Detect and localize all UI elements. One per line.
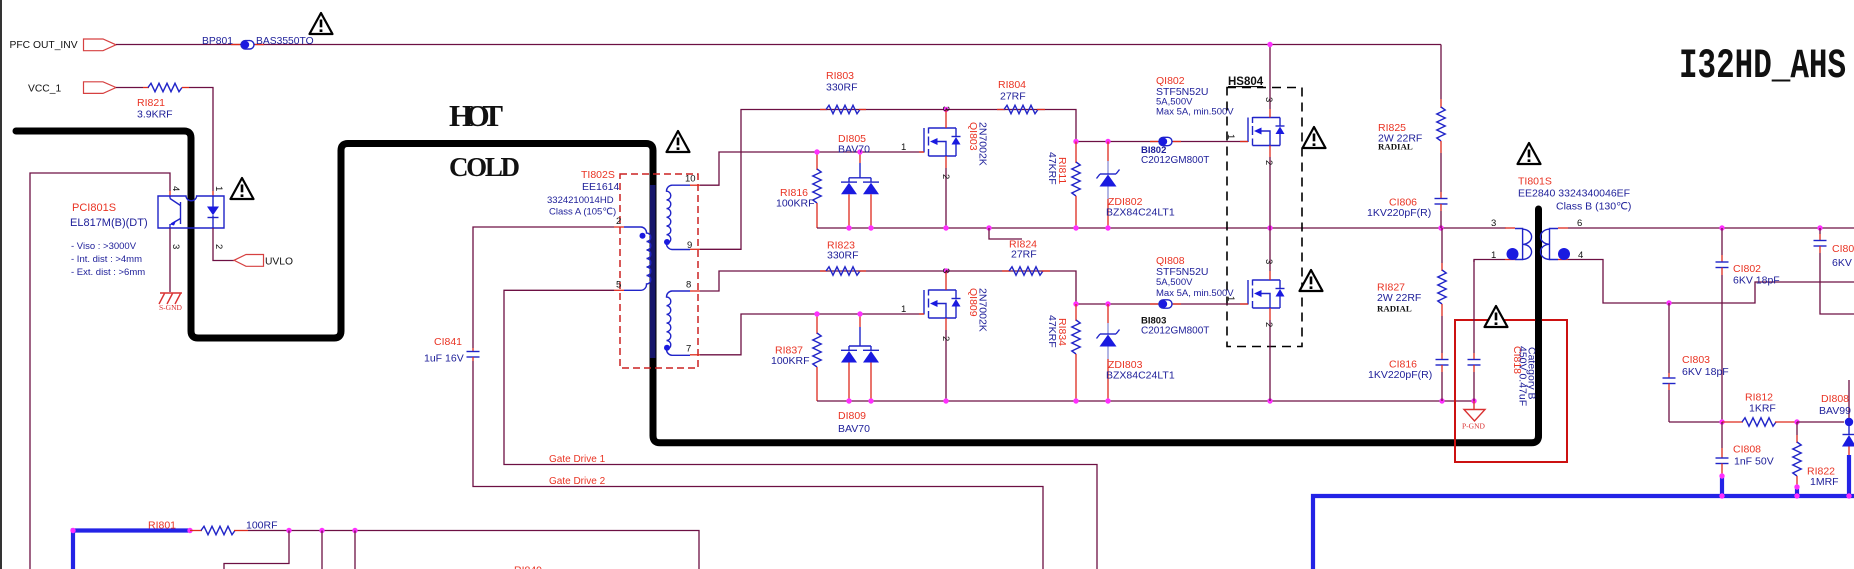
value 1uF 16V [424,353,464,365]
node bottom row a [286,528,291,533]
T1801S core bar [1535,207,1542,440]
svg-text:UVLO: UVLO [265,257,293,268]
pin 1 label Q1809 [901,304,906,315]
value C2012GM800T [1141,155,1209,166]
svg-text:1: 1 [213,186,224,191]
pin 8 label T1802S [686,280,691,291]
pin 4 label T1801S [1578,250,1583,261]
wire pin10 to gate row 1 [700,152,924,185]
value 3324210014HD [547,195,614,206]
value Class A (105C) [549,207,616,218]
svg-text:CI80: CI80 [1832,243,1854,255]
node blue rail C1808 [1719,493,1724,498]
node blue rail D1808 [1846,493,1851,498]
svg-text:DI808: DI808 [1821,393,1849,405]
node gate row B junction R1834 [1073,301,1078,306]
svg-text:1KV220pF(R): 1KV220pF(R) [1367,207,1431,219]
T1802S primary polarity dot [640,233,646,239]
wire top rail down to R1825 [1440,45,1442,100]
label C1806 [1389,197,1417,209]
node rail1 Q1802 source [1267,225,1272,230]
svg-text:6KV: 6KV [1832,257,1852,269]
value RADIAL [1377,304,1412,314]
node R1812 row right junction [1794,419,1799,424]
node R1822 bottom [1794,484,1799,489]
label C1804 [1832,243,1854,255]
pin 1 label Q1803 [901,142,906,153]
label ZD1802 [1108,196,1143,208]
pin 2 label Q1808 [1263,322,1274,327]
svg-text:BZX84C24LT1: BZX84C24LT1 [1106,370,1175,382]
pin 7 label T1802S [686,344,691,355]
warning triangle above T1802S [667,131,690,152]
label R1816 [780,187,808,199]
svg-text:47KRF: 47KRF [1046,315,1058,348]
value EL817M(B)(DT) [70,217,148,229]
wire R1821 to opto pin1 [189,88,213,192]
HOT/COLD isolation boundary thick black line [16,131,1539,443]
label Gate Drive 1 [549,454,606,465]
svg-text:C2012GM800T: C2012GM800T [1141,326,1209,337]
node rail2 ZD1803 bottom [1105,398,1110,403]
svg-text:RI801: RI801 [148,520,176,532]
wire VCC_1 to R1821 [116,87,143,89]
value 2N7002K rotated [977,288,989,332]
svg-text:3324210014HD: 3324210014HD [547,195,614,206]
label PCI801S [72,202,116,214]
svg-text:Gate Drive 1: Gate Drive 1 [549,454,606,465]
node rail2 D1809 anode a [846,398,851,403]
node rail2 R1834 bottom [1073,398,1078,403]
svg-text:VCC_1: VCC_1 [28,84,61,95]
note Ext dist [71,267,145,278]
label R1824 [1009,239,1037,251]
value Max 5A, min.500V [1156,288,1234,299]
label R1804 [998,79,1026,91]
svg-text:330RF: 330RF [827,250,859,262]
label D1808 [1821,393,1849,405]
pin 3 label Q1808 [1263,259,1274,264]
wire drain row 2 to R1824 to gate row B [946,271,1248,304]
svg-text:2: 2 [213,244,224,249]
svg-text:I32HD_AHS: I32HD_AHS [1679,42,1846,90]
node bottom row b [319,528,324,533]
node R1837 top junction [814,311,819,316]
wire secondary rail pin6 [1568,227,1854,229]
label R1822 [1807,466,1835,478]
node rail2 C1816 bottom [1439,398,1444,403]
node gate row A junction ZD1802 [1105,139,1110,144]
pin 2 label Q1803 [940,174,951,179]
svg-text:1: 1 [901,304,906,315]
svg-text:100KRF: 100KRF [771,355,810,367]
svg-text:2N7002K: 2N7002K [977,288,989,332]
resistor R1824 [1002,267,1050,275]
transistor Q1803 [919,110,961,229]
connector VCC_1 [28,82,116,95]
zener ZD1803 [1097,304,1120,401]
svg-text:3: 3 [1263,97,1274,102]
value 450V 0.47uF rotated [1517,346,1529,406]
label R1801 [148,520,176,532]
svg-text:S-GND: S-GND [159,303,183,312]
pin 1 label opto [213,186,224,191]
pin 6 label T1801S [1577,218,1582,229]
label T1802S [581,169,615,181]
pin 10 label T1802S [685,174,696,185]
value C2012GM800T [1141,326,1209,337]
pin 1 label Q1808 [1225,296,1236,301]
capacitor C1808 [1716,422,1729,476]
svg-text:HS804: HS804 [1228,76,1264,88]
svg-text:3: 3 [1491,218,1496,229]
warning triangle right of Q1802 [1303,127,1326,148]
svg-text:2: 2 [1263,322,1274,327]
svg-text:BAS3550TO: BAS3550TO [256,36,314,47]
wire T1801S pin1 to C1818 [1474,260,1505,263]
resistor R1821 [143,83,189,91]
label Q1802 [1156,75,1185,87]
T1801S primary winding pins 3-1 [1505,228,1532,260]
pin 4 label opto [170,186,181,191]
svg-text:1nF 50V: 1nF 50V [1734,456,1774,468]
pin 1 label Q1802 [1225,134,1236,139]
ground P-GND [1462,401,1486,431]
wire opto pin3 to S-GND [169,228,171,292]
wire R1822 stub to blue rail [1795,486,1799,496]
svg-text:COLD: COLD [449,152,520,182]
wire blue ground rail [1313,496,1854,569]
svg-text:2W 22RF: 2W 22RF [1377,292,1421,304]
value BAV99 [1819,405,1851,417]
pin 3 label Q1809 [940,268,951,273]
value EE2840 3324340046EF [1518,188,1630,200]
node pin4 net C1803 junction [1666,300,1671,305]
svg-text:TI801S: TI801S [1518,176,1552,188]
node R1816 top junction [814,149,819,154]
title I32HD_AHS [1679,42,1846,90]
value STF5N52U [1156,266,1209,278]
value BAV70 [838,144,870,156]
svg-text:TI802S: TI802S [581,169,615,181]
value BAV70 [838,423,870,435]
capacitor C1806 [1435,192,1448,228]
node bottom row c [352,528,357,533]
pin 2 label opto [213,244,224,249]
svg-text:RI803: RI803 [826,70,854,82]
resistor R1801 [190,526,248,534]
svg-text:CI803: CI803 [1682,354,1710,366]
svg-text:RADIAL: RADIAL [1377,304,1412,314]
value BZX84C24LT1 [1106,207,1175,219]
value 100KRF [771,355,810,367]
transformer T1801S label [1518,176,1552,188]
value Class B (130C) [1556,201,1631,213]
value 2N7002K rotated [977,122,989,166]
svg-text:2: 2 [616,216,621,227]
svg-text:1MRF: 1MRF [1810,476,1839,488]
svg-text:1: 1 [901,142,906,153]
node blue corner [70,528,75,533]
node R1801 left [187,528,192,533]
value 6KV 18pF [1682,366,1729,378]
wire source rail 2 [817,400,1474,402]
value BZX84C24LT1 [1106,370,1175,382]
svg-text:Gate Drive 2: Gate Drive 2 [549,476,606,487]
value EE1614 [582,181,620,193]
value 3.9KRF [137,109,173,121]
node C1808 bottom [1719,473,1724,478]
capacitor C1841 [467,348,480,361]
value 1nF 50V [1734,456,1774,468]
label Q1803 rotated [967,122,979,151]
wire pin2 to C1841 column [473,227,614,348]
svg-text:Class B (130℃): Class B (130℃) [1556,201,1631,213]
node rail1 ZD1802 bottom [1105,225,1110,230]
ground S-GND [159,293,183,312]
label C1818 rotated [1511,346,1523,374]
value RADIAL [1378,142,1413,152]
svg-text:BAV70: BAV70 [838,423,870,435]
label Q1808 [1156,255,1185,267]
label D1805 [838,133,866,145]
node rail1 R1811 bottom [1073,225,1078,230]
T1801S secondary polarity dot [1558,248,1570,260]
node rail1 stub junction [986,225,991,230]
svg-text:BAV99: BAV99 [1819,405,1851,417]
wire R1812 to D1808 [1797,421,1844,423]
svg-text:2: 2 [1263,160,1274,165]
node rail1 C1806 column [1438,225,1443,230]
wire pin7 to gate row 2 [700,314,924,355]
label C1816 [1389,359,1417,371]
diode D1808 BAV99 [1842,380,1854,496]
node R1812 row left junction [1719,419,1724,424]
value Max 5A, min.500V [1156,107,1234,118]
value 330RF [827,250,859,262]
svg-text:27RF: 27RF [1011,249,1037,261]
wire opto pin2 to UVLO [213,228,234,261]
pin 3 label Q1803 [940,106,951,111]
wire stub below rail1 [989,228,1022,239]
value 27RF [1011,249,1037,261]
svg-text:4: 4 [170,186,181,191]
svg-text:- Viso : >3000V: - Viso : >3000V [71,241,137,252]
label C1803 [1682,354,1710,366]
capacitor C1802 [1716,228,1729,422]
wire net PFC_OUT_INV top rail [116,44,1441,46]
resistor R1823 [820,267,866,275]
label R1834 rotated [1056,318,1068,346]
svg-text:10: 10 [685,174,696,185]
pin 3 label T1801S [1491,218,1496,229]
svg-text:3: 3 [170,244,181,249]
value 2W 22RF [1378,133,1422,145]
value 47KRF rotated [1046,315,1058,348]
warning triangle near optocoupler [231,178,254,199]
svg-text:8: 8 [686,280,691,291]
svg-text:HOT: HOT [449,98,503,133]
label HS804 [1228,76,1264,88]
wire C1803 bottom to R1812 row [1669,421,1722,423]
pin 9 label T1802S [687,240,692,251]
wire branch c [354,531,356,569]
wire branch b [321,531,323,569]
label R1837 [775,345,803,357]
page border left edge [0,0,2,569]
value 1KV220pF(R) [1368,369,1432,381]
T1801S primary polarity dot [1507,248,1519,260]
connector PFC OUT_INV [10,39,117,51]
svg-text:1KRF: 1KRF [1749,403,1776,415]
node D1805 cathode junction [857,149,862,154]
pin 2 label Q1809 [940,336,951,341]
node top rail Q1802 drain [1267,42,1272,47]
svg-text:EL817M(B)(DT): EL817M(B)(DT) [70,217,148,229]
label R1803 [826,70,854,82]
node blue rail R1822 [1794,493,1799,498]
node rail1 D1805 anode a [846,225,851,230]
ferrite bead BP801 [231,41,264,49]
label BI803 [1141,316,1166,327]
label R1849 cut at bottom [514,565,542,569]
capacitor C1816 [1436,316,1449,401]
svg-text:3: 3 [1263,259,1274,264]
value 47KRF rotated [1046,152,1058,185]
svg-text:BAV70: BAV70 [838,144,870,156]
svg-text:100KRF: 100KRF [776,198,815,210]
value 5A,500V [1156,277,1193,288]
diode D1805 BAV70 [841,152,879,228]
node rail2 Q1808 source [1267,398,1272,403]
svg-text:1KV220pF(R): 1KV220pF(R) [1368,369,1432,381]
warning triangle near BP801 [310,13,333,34]
label C1802 [1733,263,1761,275]
node D1809 cathode junction [857,311,862,316]
capacitor C1804 [1814,228,1854,314]
resistor R1822 [1793,422,1801,487]
value 100KRF [776,198,815,210]
svg-text:2: 2 [940,336,951,341]
svg-text:EE1614: EE1614 [582,181,620,193]
label D1809 [838,410,866,422]
svg-text:Max 5A, min.500V: Max 5A, min.500V [1156,107,1234,118]
value 1KV220pF(R) [1367,207,1431,219]
capacitor C1818 [1468,260,1481,401]
value 5A,500V [1156,97,1193,108]
svg-text:47KRF: 47KRF [1046,152,1058,185]
label Q1809 rotated [967,288,979,317]
svg-text:6KV 18pF: 6KV 18pF [1733,275,1780,287]
op-amp PCI801S optocoupler [158,191,224,228]
value 100RF [246,520,278,532]
svg-text:- Int. dist : >4mm: - Int. dist : >4mm [71,254,142,265]
label R1821 [137,97,165,109]
ferrite bead BI803 [1150,300,1181,308]
connector UVLO [234,255,293,268]
svg-text:Class A (105℃): Class A (105℃) [549,207,616,218]
note Viso [71,241,137,252]
HOT label [449,98,503,133]
warning triangle above C1818 [1485,306,1508,327]
label C1841 [434,336,462,348]
svg-text:P-GND: P-GND [1462,422,1486,431]
svg-text:2N7002K: 2N7002K [977,122,989,166]
T1802S secondary winding pins 8-7 [666,291,700,355]
value 1KRF [1749,403,1776,415]
label BI802 [1141,145,1166,156]
resistor R1803 [820,105,866,113]
pin 2 label T1802S [616,216,621,227]
svg-text:3: 3 [940,106,951,111]
svg-text:5A,500V: 5A,500V [1156,277,1193,288]
wire pin8 up to drain row 2 [700,271,946,291]
svg-text:BZX84C24LT1: BZX84C24LT1 [1106,207,1175,219]
pin 3 label Q1802 [1263,97,1274,102]
value 6KV [1832,257,1852,269]
warning triangle above T1801S [1518,143,1541,164]
svg-text:BP801: BP801 [202,36,233,47]
T1802S secondary dot pin7 [664,345,670,351]
zener ZD1802 [1097,142,1120,229]
transistor Q1809 [919,271,961,401]
svg-text:1uF 16V: 1uF 16V [424,353,464,365]
svg-text:3: 3 [940,268,951,273]
svg-text:CI841: CI841 [434,336,462,348]
wire branch a jog [224,531,289,569]
value 27RF [1000,91,1026,103]
COLD label [449,152,520,182]
svg-text:PCI801S: PCI801S [72,202,116,214]
svg-text:- Ext. dist : >6mm: - Ext. dist : >6mm [71,267,145,278]
label R1825 [1378,122,1406,134]
diode D1809 BAV70 [841,314,879,401]
transformer T1802S dashed outline [620,174,698,368]
svg-text:PFC OUT_INV: PFC OUT_INV [10,40,78,51]
red enclosure box around C1818 [1455,320,1567,462]
label R1811 rotated [1056,157,1068,184]
pin 3 label opto [170,244,181,249]
svg-text:2: 2 [940,174,951,179]
label BP801 [202,36,233,47]
pin 2 label Q1802 [1263,160,1274,165]
node gate row A junction R1811 [1073,139,1078,144]
wire bottom distribution row [248,531,699,569]
node right rail C1802 junction [1719,225,1724,230]
T1802S secondary dot pin9 [664,239,670,245]
svg-text:RI804: RI804 [998,79,1026,91]
wire pin5 to Gate Drive 1 net [504,290,1097,569]
label R1812 [1745,392,1773,404]
label C1808 [1733,444,1761,456]
value 6KV 18pF [1733,275,1780,287]
svg-text:6KV 18pF: 6KV 18pF [1682,366,1729,378]
wire C1808 stub to blue rail [1720,475,1724,496]
svg-text:RI821: RI821 [137,97,165,109]
node gate row B junction ZD1803 [1105,301,1110,306]
svg-text:EE2840 3324340046EF: EE2840 3324340046EF [1518,188,1630,200]
resistor R1804 [997,105,1045,113]
pin 5 label T1802S [616,280,621,291]
wire drain row to R1804 [946,110,1248,142]
svg-text:27RF: 27RF [1000,91,1026,103]
svg-text:RI849: RI849 [514,565,542,569]
transistor Q1802 [1240,45,1285,229]
value 2W 22RF [1377,292,1421,304]
ferrite bead BI802 [1150,137,1181,145]
T1801S secondary winding pins 6-4 [1541,228,1569,260]
resistor R1811 [1072,142,1080,229]
